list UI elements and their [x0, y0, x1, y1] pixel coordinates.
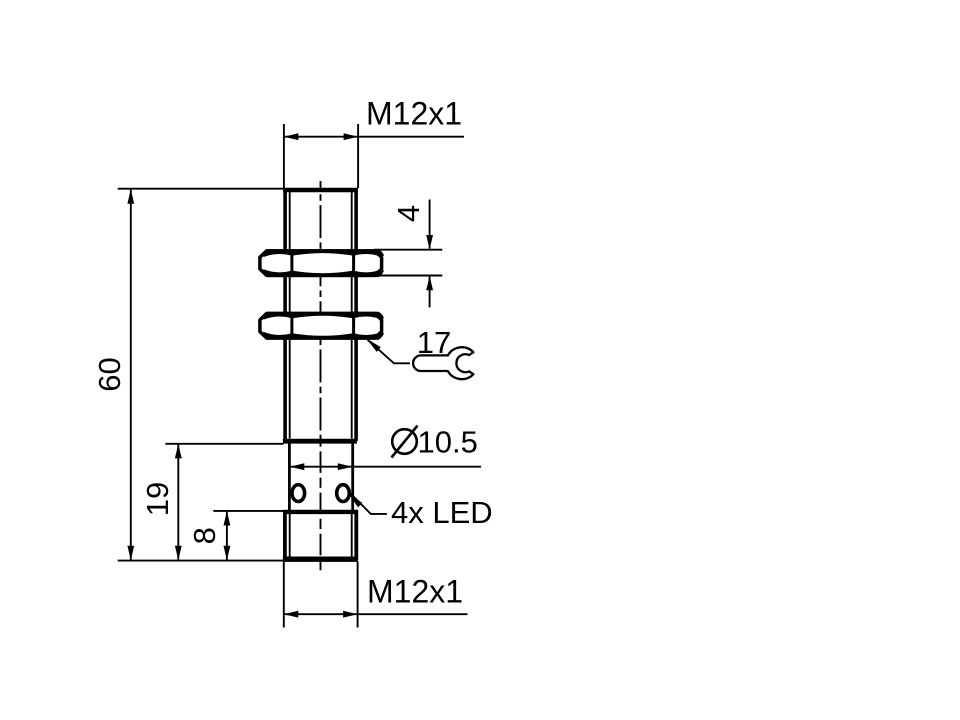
- svg-text:19: 19: [140, 482, 175, 516]
- connector collar outline: [283, 510, 358, 560]
- dimension 19: dimension line: [177, 444, 179, 560]
- dimension 4: extension lines: [374, 250, 442, 276]
- dimension M12x1 bottom: arrows: [284, 611, 299, 618]
- dimension diameter 10.5: arrows: [290, 463, 305, 470]
- dimension 60: dimension line: [130, 190, 132, 561]
- hex nut N1: [260, 249, 384, 277]
- dimension 4: dimension lines with outside arrows: [429, 200, 431, 249]
- dimension 8: arrows: [224, 511, 231, 526]
- LED window right: [337, 485, 350, 502]
- dimension diameter 10.5: dimension line: [290, 466, 481, 468]
- wrench icon: [413, 347, 473, 379]
- svg-text:M12x1: M12x1: [366, 96, 462, 132]
- dimension M12x1 top: extension lines: [284, 124, 358, 188]
- svg-text:8: 8: [187, 527, 222, 544]
- dimension 60: arrows: [127, 189, 134, 204]
- dimension 19: extension line: [165, 443, 283, 445]
- svg-text:4: 4: [391, 205, 426, 222]
- dimension 8: extension line: [213, 510, 283, 512]
- dimension 19: arrows: [175, 444, 182, 459]
- centerline: [320, 181, 322, 571]
- svg-text:60: 60: [92, 357, 127, 391]
- leader for wrench size 17: [368, 340, 411, 364]
- dimension M12x1 top: arrows: [284, 133, 299, 140]
- narrow section (diam 10.5) edges: [289, 444, 352, 512]
- sensor body threaded barrel outline: [283, 188, 358, 441]
- svg-text:10.5: 10.5: [418, 425, 478, 460]
- thread minor diameter lines: [290, 192, 352, 439]
- dimension M12x1 bottom: extension lines: [284, 562, 358, 628]
- hex nut N2: [260, 312, 384, 340]
- dimension diameter 10.5: diameter symbol: [392, 426, 418, 458]
- dimension M12x1 bottom: dimension line: [284, 613, 468, 615]
- svg-text:M12x1: M12x1: [367, 574, 463, 610]
- leader for 4x LED: [351, 494, 387, 514]
- LED window left: [292, 485, 305, 502]
- svg-text:4x LED: 4x LED: [391, 495, 493, 530]
- dimension 60: extension lines: [118, 189, 284, 561]
- connector thread inner lines: [290, 514, 352, 557]
- dimension 8: dimension line: [226, 511, 228, 560]
- dimension M12x1 top: dimension line: [284, 136, 464, 138]
